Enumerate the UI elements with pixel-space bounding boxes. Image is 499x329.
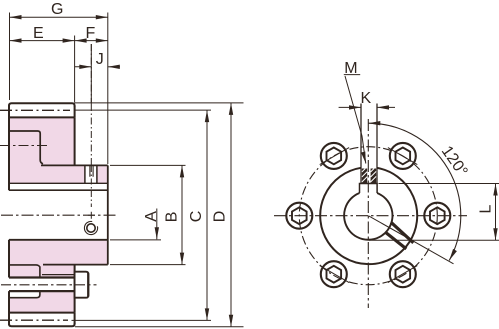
screw axis centerline <box>1 284 97 286</box>
svg-text:A: A <box>143 211 160 222</box>
screw hole bottom edge <box>9 290 75 292</box>
C dimension line <box>206 110 208 320</box>
M underline <box>344 74 360 76</box>
main centerline <box>1 214 118 216</box>
bolt circle tick bottom-right screw <box>388 266 417 283</box>
screw 300deg <box>390 261 416 287</box>
svg-text:K: K <box>361 90 372 107</box>
D dimension line <box>230 103 232 327</box>
screw 60deg <box>390 143 416 169</box>
svg-text:C: C <box>188 211 205 223</box>
F dimension line <box>75 40 108 42</box>
hub end face <box>107 165 109 264</box>
diagonal slit inner bar <box>385 232 406 249</box>
bore circle with keyway <box>344 193 392 240</box>
svg-text:J: J <box>96 51 104 68</box>
L dimension line <box>495 184 497 241</box>
E dimension line <box>10 40 75 42</box>
hub bottom line <box>43 264 108 266</box>
diagonal slit outer bar <box>391 222 414 243</box>
bolt circle (dash-dot) <box>299 147 437 285</box>
clamp screw centerline vertical <box>90 44 92 165</box>
K dim right arrow <box>377 106 395 108</box>
K dim left arrow <box>339 106 361 108</box>
screw hole top edge <box>9 276 75 278</box>
bottom counterbore inner line <box>42 274 75 276</box>
gear tip line top <box>9 103 75 106</box>
svg-text:F: F <box>86 25 96 42</box>
E/F boundary extension <box>74 36 76 103</box>
tapped hole thread arc <box>84 221 97 234</box>
bolt hole centerline top <box>0 145 50 147</box>
vertical centerline <box>367 119 369 308</box>
slit side lines <box>361 104 377 184</box>
keyway <box>360 184 378 194</box>
A bottom extension <box>110 239 161 241</box>
G extension lines <box>10 13 108 165</box>
flange section fill <box>9 117 108 183</box>
screw 120deg <box>321 143 347 169</box>
B dimension line <box>181 165 183 264</box>
svg-text:L: L <box>478 205 495 214</box>
counterbore edge Z top <box>9 131 43 164</box>
J dimension line right <box>108 66 120 68</box>
D extensions <box>75 103 244 327</box>
tapped hole inner circle <box>87 224 95 232</box>
bolt circle tick top-left screw <box>320 148 349 165</box>
gear tip line bottom <box>9 323 75 327</box>
pitch line top (dashed) <box>0 109 70 111</box>
teeth band right edges <box>74 106 76 325</box>
120 dim arc <box>368 123 460 260</box>
bore top line <box>9 189 108 191</box>
slit inner lines <box>90 165 93 176</box>
screw 0deg <box>424 203 450 229</box>
bore bottom line <box>9 239 108 241</box>
C extensions <box>72 110 212 320</box>
flange section fill lower <box>9 240 108 278</box>
L extension lines <box>369 184 499 241</box>
flange section fill lower2 <box>9 291 75 313</box>
slit side lines <box>85 165 97 183</box>
gear root line bottom <box>9 312 75 314</box>
keyway bottom line <box>9 182 108 184</box>
svg-text:D: D <box>212 211 229 223</box>
center cross <box>88 212 95 219</box>
screw head right edge thick <box>87 273 89 297</box>
svg-text:B: B <box>163 212 180 223</box>
horizontal centerline <box>274 215 467 217</box>
bottom counterbore vertical below <box>9 291 40 298</box>
M leader <box>345 76 366 164</box>
svg-text:E: E <box>33 25 44 42</box>
B extensions <box>110 165 186 264</box>
J dimension line left <box>75 66 92 68</box>
left face <box>8 105 10 326</box>
bolt circle tick bottom-left screw <box>320 266 349 283</box>
screw 240deg <box>321 261 347 287</box>
bolt circle tick top-right screw <box>388 148 417 165</box>
bottom counterbore edge <box>9 265 40 278</box>
screw 180deg <box>286 203 312 229</box>
slit hatch right <box>371 169 377 184</box>
G dimension line <box>10 16 108 18</box>
slit hatch left <box>362 169 367 184</box>
radial reference line -31deg <box>368 216 453 264</box>
screw head rect <box>75 272 89 298</box>
A dimension line <box>156 209 158 240</box>
pitch line bottom (dashed) <box>0 319 68 321</box>
hub OD circle <box>320 168 417 264</box>
gear root line top <box>9 116 75 118</box>
hub top line <box>41 164 108 166</box>
svg-text:G: G <box>51 1 63 18</box>
flange right face <box>74 117 76 312</box>
